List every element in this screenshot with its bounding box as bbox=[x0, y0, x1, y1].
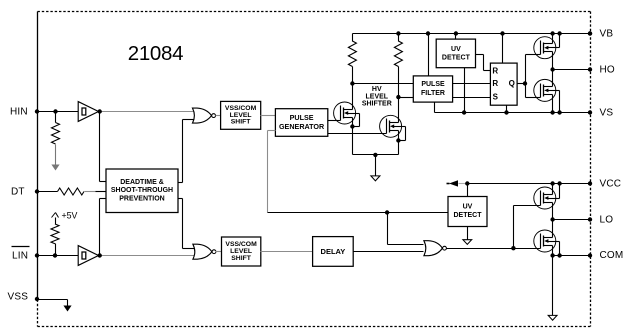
svg-text:DEADTIME &: DEADTIME & bbox=[120, 179, 164, 186]
svg-text:VCC: VCC bbox=[600, 178, 622, 189]
svg-text:LO: LO bbox=[600, 215, 614, 226]
svg-text:HIN: HIN bbox=[10, 106, 28, 117]
svg-text:COM: COM bbox=[600, 250, 624, 261]
svg-text:SHIFT: SHIFT bbox=[231, 255, 251, 262]
svg-text:UV: UV bbox=[463, 203, 473, 210]
svg-text:DETECT: DETECT bbox=[454, 212, 483, 219]
svg-text:HO: HO bbox=[600, 64, 615, 75]
svg-text:HV: HV bbox=[372, 86, 382, 93]
svg-text:DETECT: DETECT bbox=[442, 54, 471, 61]
svg-text:FILTER: FILTER bbox=[421, 90, 445, 97]
svg-text:+5V: +5V bbox=[62, 210, 78, 220]
svg-text:VS: VS bbox=[600, 107, 614, 118]
svg-text:UV: UV bbox=[451, 46, 461, 53]
svg-text:LEVEL: LEVEL bbox=[366, 93, 389, 100]
svg-text:Q: Q bbox=[509, 79, 515, 88]
svg-text:SHOOT-THROUGH: SHOOT-THROUGH bbox=[111, 187, 173, 194]
svg-text:VB: VB bbox=[600, 28, 614, 39]
svg-text:PULSE: PULSE bbox=[421, 81, 445, 88]
svg-text:PULSE: PULSE bbox=[290, 113, 314, 122]
svg-text:21084: 21084 bbox=[128, 42, 184, 65]
svg-text:SHIFT: SHIFT bbox=[231, 119, 251, 126]
svg-text:R: R bbox=[492, 66, 498, 75]
svg-text:LIN: LIN bbox=[12, 251, 28, 262]
svg-text:VSS: VSS bbox=[8, 292, 29, 303]
svg-text:DT: DT bbox=[11, 186, 25, 197]
svg-text:DELAY: DELAY bbox=[321, 247, 346, 256]
svg-text:GENERATOR: GENERATOR bbox=[279, 122, 325, 131]
svg-text:PREVENTION: PREVENTION bbox=[119, 196, 165, 203]
svg-text:R: R bbox=[492, 79, 498, 88]
svg-text:S: S bbox=[493, 93, 499, 102]
svg-text:SHIFTER: SHIFTER bbox=[362, 101, 392, 108]
